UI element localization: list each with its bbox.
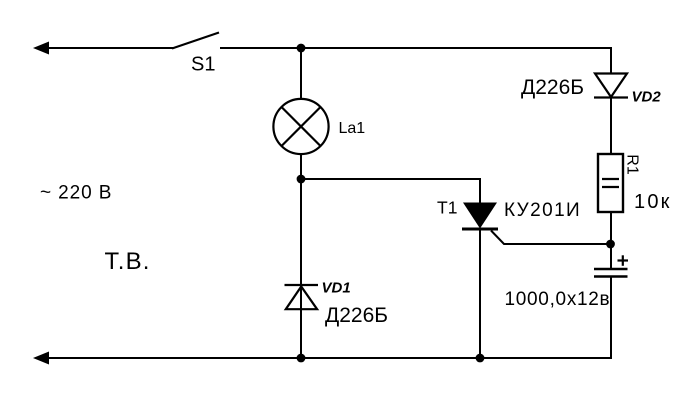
wire VD2 to R1	[610, 97, 612, 154]
node junction VD1 branch on bottom rail	[297, 354, 306, 363]
lamp La1	[273, 99, 328, 154]
svg-text:Д226Б: Д226Б	[325, 304, 388, 327]
svg-text:1000,0х12в: 1000,0х12в	[505, 289, 611, 310]
wire to thyristor anode	[301, 178, 481, 180]
node junction lamp/anode tap	[297, 175, 306, 184]
wire top-right corner down to VD2	[610, 47, 612, 74]
svg-text:КУ201И: КУ201И	[504, 200, 581, 221]
capacitor C1 plates	[594, 269, 628, 277]
wire capacitor to bottom rail	[610, 277, 612, 360]
resistor R1	[598, 154, 623, 212]
svg-text:VD1: VD1	[322, 280, 351, 297]
arrowhead top-left (mains lead)	[33, 42, 49, 55]
diode VD2	[594, 74, 628, 98]
wire bottom rail	[46, 357, 612, 359]
node junction thyristor cathode on bottom rail	[476, 354, 485, 363]
wire lamp bottom down to bottom rail	[300, 154, 302, 358]
svg-text:Т.В.: Т.В.	[105, 248, 151, 275]
capacitor C1 polarity plus	[618, 255, 629, 265]
node junction top (lamp tap)	[297, 44, 306, 53]
switch S1 blade	[172, 33, 219, 49]
wire top rail right of switch	[220, 47, 612, 49]
svg-text:10к: 10к	[634, 191, 672, 213]
svg-text:Д226Б: Д226Б	[521, 76, 584, 99]
diode VD1	[285, 285, 319, 309]
wire thyristor cathode down to bottom rail	[479, 229, 481, 358]
svg-text:VD2: VD2	[632, 89, 662, 106]
svg-text:R1: R1	[623, 154, 640, 175]
svg-text:Т1: Т1	[437, 198, 457, 218]
wire thyristor gate	[491, 231, 611, 245]
wire lamp branch from top rail	[300, 48, 302, 99]
wire thyristor anode vertical	[479, 178, 481, 203]
node junction gate/cap	[606, 240, 615, 249]
svg-text:La1: La1	[339, 120, 366, 137]
svg-text:S1: S1	[191, 54, 215, 76]
wire R1 to capacitor	[610, 212, 612, 269]
thyristor T1	[462, 203, 498, 230]
svg-text:~ 220 В: ~ 220 В	[40, 183, 112, 204]
wire top rail left of switch	[46, 47, 173, 49]
arrowhead bottom-left (mains lead)	[33, 352, 49, 365]
